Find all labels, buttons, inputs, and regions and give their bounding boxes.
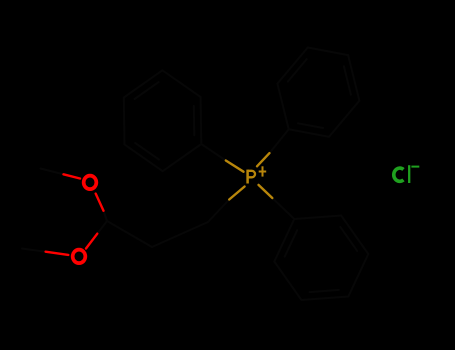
phenyl ring 3 (lower-right of P, near-invisible) [272,198,368,300]
chloride ion label Cl [394,165,409,183]
red oxygen half-bonds [46,174,104,255]
bond O-C upper (O half) [96,194,104,211]
ring 2 aromatic inner bonds [288,59,307,82]
bond C1-C2 [152,222,208,247]
ring 3 aromatic inner bonds [340,227,357,251]
phenyl ring 1 (upper-left of P, carbon half-bonds, near-invisible) [124,70,226,171]
phenyl ring 2 (top, near-invisible) [270,48,360,154]
bond P-ring1 (P half, up-left) [226,161,244,172]
bond P-ring2 (P half, up-right) [257,153,270,166]
upper methyl half-bond [41,169,64,175]
bond CH3-O lower (O half) [46,252,69,255]
charge plus on P [259,166,267,176]
bond P-ring3 carbon half [272,198,294,219]
bond P-ring1 carbon half [201,144,226,161]
bond O-C lower (O half) [86,234,97,249]
bond P-C1 (P half, down-left) [229,187,244,200]
acetal C half-bond to upper O [104,211,108,221]
olive P half-bonds [226,153,272,199]
bond P-C1 carbon half [208,200,229,223]
atom O upper [84,176,97,190]
bond P-ring2 carbon half [270,129,289,153]
ring 1 aromatic inner bonds [135,143,159,160]
acetal C half-bond to lower O [97,221,107,234]
bond CH3-O upper (O half) [64,174,81,178]
propyl chain (carbon bonds, near-invisible) [22,169,229,252]
atom O lower [73,250,86,264]
atom P [248,170,255,184]
chloride minus sign [411,166,419,168]
lower methyl half-bond [22,249,46,252]
bond C2-C3 acetal [107,221,152,247]
bond P-ring3 (P half, down-right) [259,185,273,198]
